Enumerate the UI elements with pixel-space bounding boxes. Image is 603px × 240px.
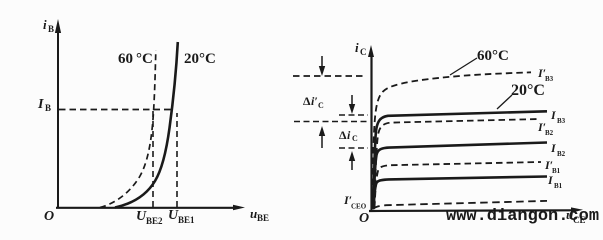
axis label uBE xyxy=(250,206,269,223)
svg-text:B2: B2 xyxy=(557,150,566,158)
solid curve IB1 xyxy=(374,177,548,210)
dashed curve I'B2 xyxy=(375,119,541,207)
label UBE2 xyxy=(136,209,163,226)
svg-text:CEO: CEO xyxy=(351,203,367,211)
down arrow above I'B3 guide xyxy=(321,56,323,68)
dashed guide at UBE2 xyxy=(152,111,154,207)
label IB3 xyxy=(550,108,566,125)
label UBE1 xyxy=(168,208,195,225)
svg-text:B3: B3 xyxy=(557,117,566,125)
y-axis (right plot) xyxy=(370,55,372,211)
guide dashed line at IB2 level xyxy=(339,147,368,149)
label IB1 xyxy=(547,173,563,190)
x-axis (left plot) xyxy=(56,207,235,209)
svg-text:B3: B3 xyxy=(545,75,554,83)
label I'B1 xyxy=(544,158,561,175)
up arrow below IB2 guide xyxy=(351,159,353,170)
guide dashed line at I'B3 level xyxy=(293,75,366,77)
60C dashed curve (left plot) xyxy=(100,50,156,208)
dashed level line IB xyxy=(59,109,172,111)
svg-text:20°C: 20°C xyxy=(511,82,545,99)
solid curve IB3 xyxy=(374,111,548,207)
solid curve IB2 xyxy=(374,143,548,209)
label I'CEO xyxy=(343,193,367,211)
svg-text:O: O xyxy=(44,209,54,224)
label IB xyxy=(37,97,51,113)
label 20C (right plot) with leader xyxy=(497,95,512,109)
svg-text:Δ: Δ xyxy=(339,128,347,142)
svg-text:BE: BE xyxy=(257,213,269,223)
svg-text:i: i xyxy=(355,40,359,55)
down arrow above IB3 guide xyxy=(351,95,353,106)
axis label iC xyxy=(355,40,367,57)
svg-text:B2: B2 xyxy=(545,129,554,137)
svg-text:BE1: BE1 xyxy=(178,215,195,225)
label delta iC xyxy=(339,128,358,143)
svg-text:B: B xyxy=(45,103,51,113)
axis label iB xyxy=(43,17,54,34)
label I'B2 xyxy=(537,120,554,137)
dashed guide at UBE1 xyxy=(176,113,178,207)
axis label uCE xyxy=(566,207,586,225)
svg-text:60°C: 60°C xyxy=(477,48,509,64)
x-axis (right plot) xyxy=(369,209,573,212)
y-axis (left plot) xyxy=(57,30,59,208)
svg-text:B: B xyxy=(48,24,54,34)
guide dashed line at I'B2 level xyxy=(294,121,367,123)
svg-text:60 °C: 60 °C xyxy=(118,51,153,67)
up arrow below I'B2 guide xyxy=(321,135,323,148)
label I'B3 xyxy=(537,66,554,83)
svg-text:I: I xyxy=(547,173,554,187)
dashed line I'CEO xyxy=(373,201,547,209)
guide dashed line at IB3 level xyxy=(339,114,368,116)
svg-text:i′: i′ xyxy=(311,94,318,108)
svg-text:20°C: 20°C xyxy=(184,51,216,67)
svg-text:C: C xyxy=(352,134,358,143)
svg-text:i: i xyxy=(43,17,47,32)
svg-text:I: I xyxy=(37,97,44,112)
svg-text:B1: B1 xyxy=(554,182,563,190)
label delta i'C xyxy=(303,94,324,110)
svg-text:C: C xyxy=(318,101,324,110)
svg-text:i: i xyxy=(347,128,351,142)
svg-text:CE: CE xyxy=(573,215,586,225)
svg-text:B1: B1 xyxy=(552,167,561,175)
svg-text:I: I xyxy=(550,108,557,122)
svg-text:Δ: Δ xyxy=(303,94,311,108)
dashed curve I'B1 xyxy=(375,162,542,208)
svg-text:BE2: BE2 xyxy=(146,216,163,226)
svg-text:O: O xyxy=(359,211,369,226)
label IB2 xyxy=(550,141,566,158)
svg-text:I: I xyxy=(550,141,557,155)
svg-text:C: C xyxy=(360,47,367,57)
60C top dashed curve I'B3 xyxy=(372,72,531,206)
20C solid curve (left plot) xyxy=(115,42,178,208)
label 60C (right plot) with leader xyxy=(450,58,477,75)
